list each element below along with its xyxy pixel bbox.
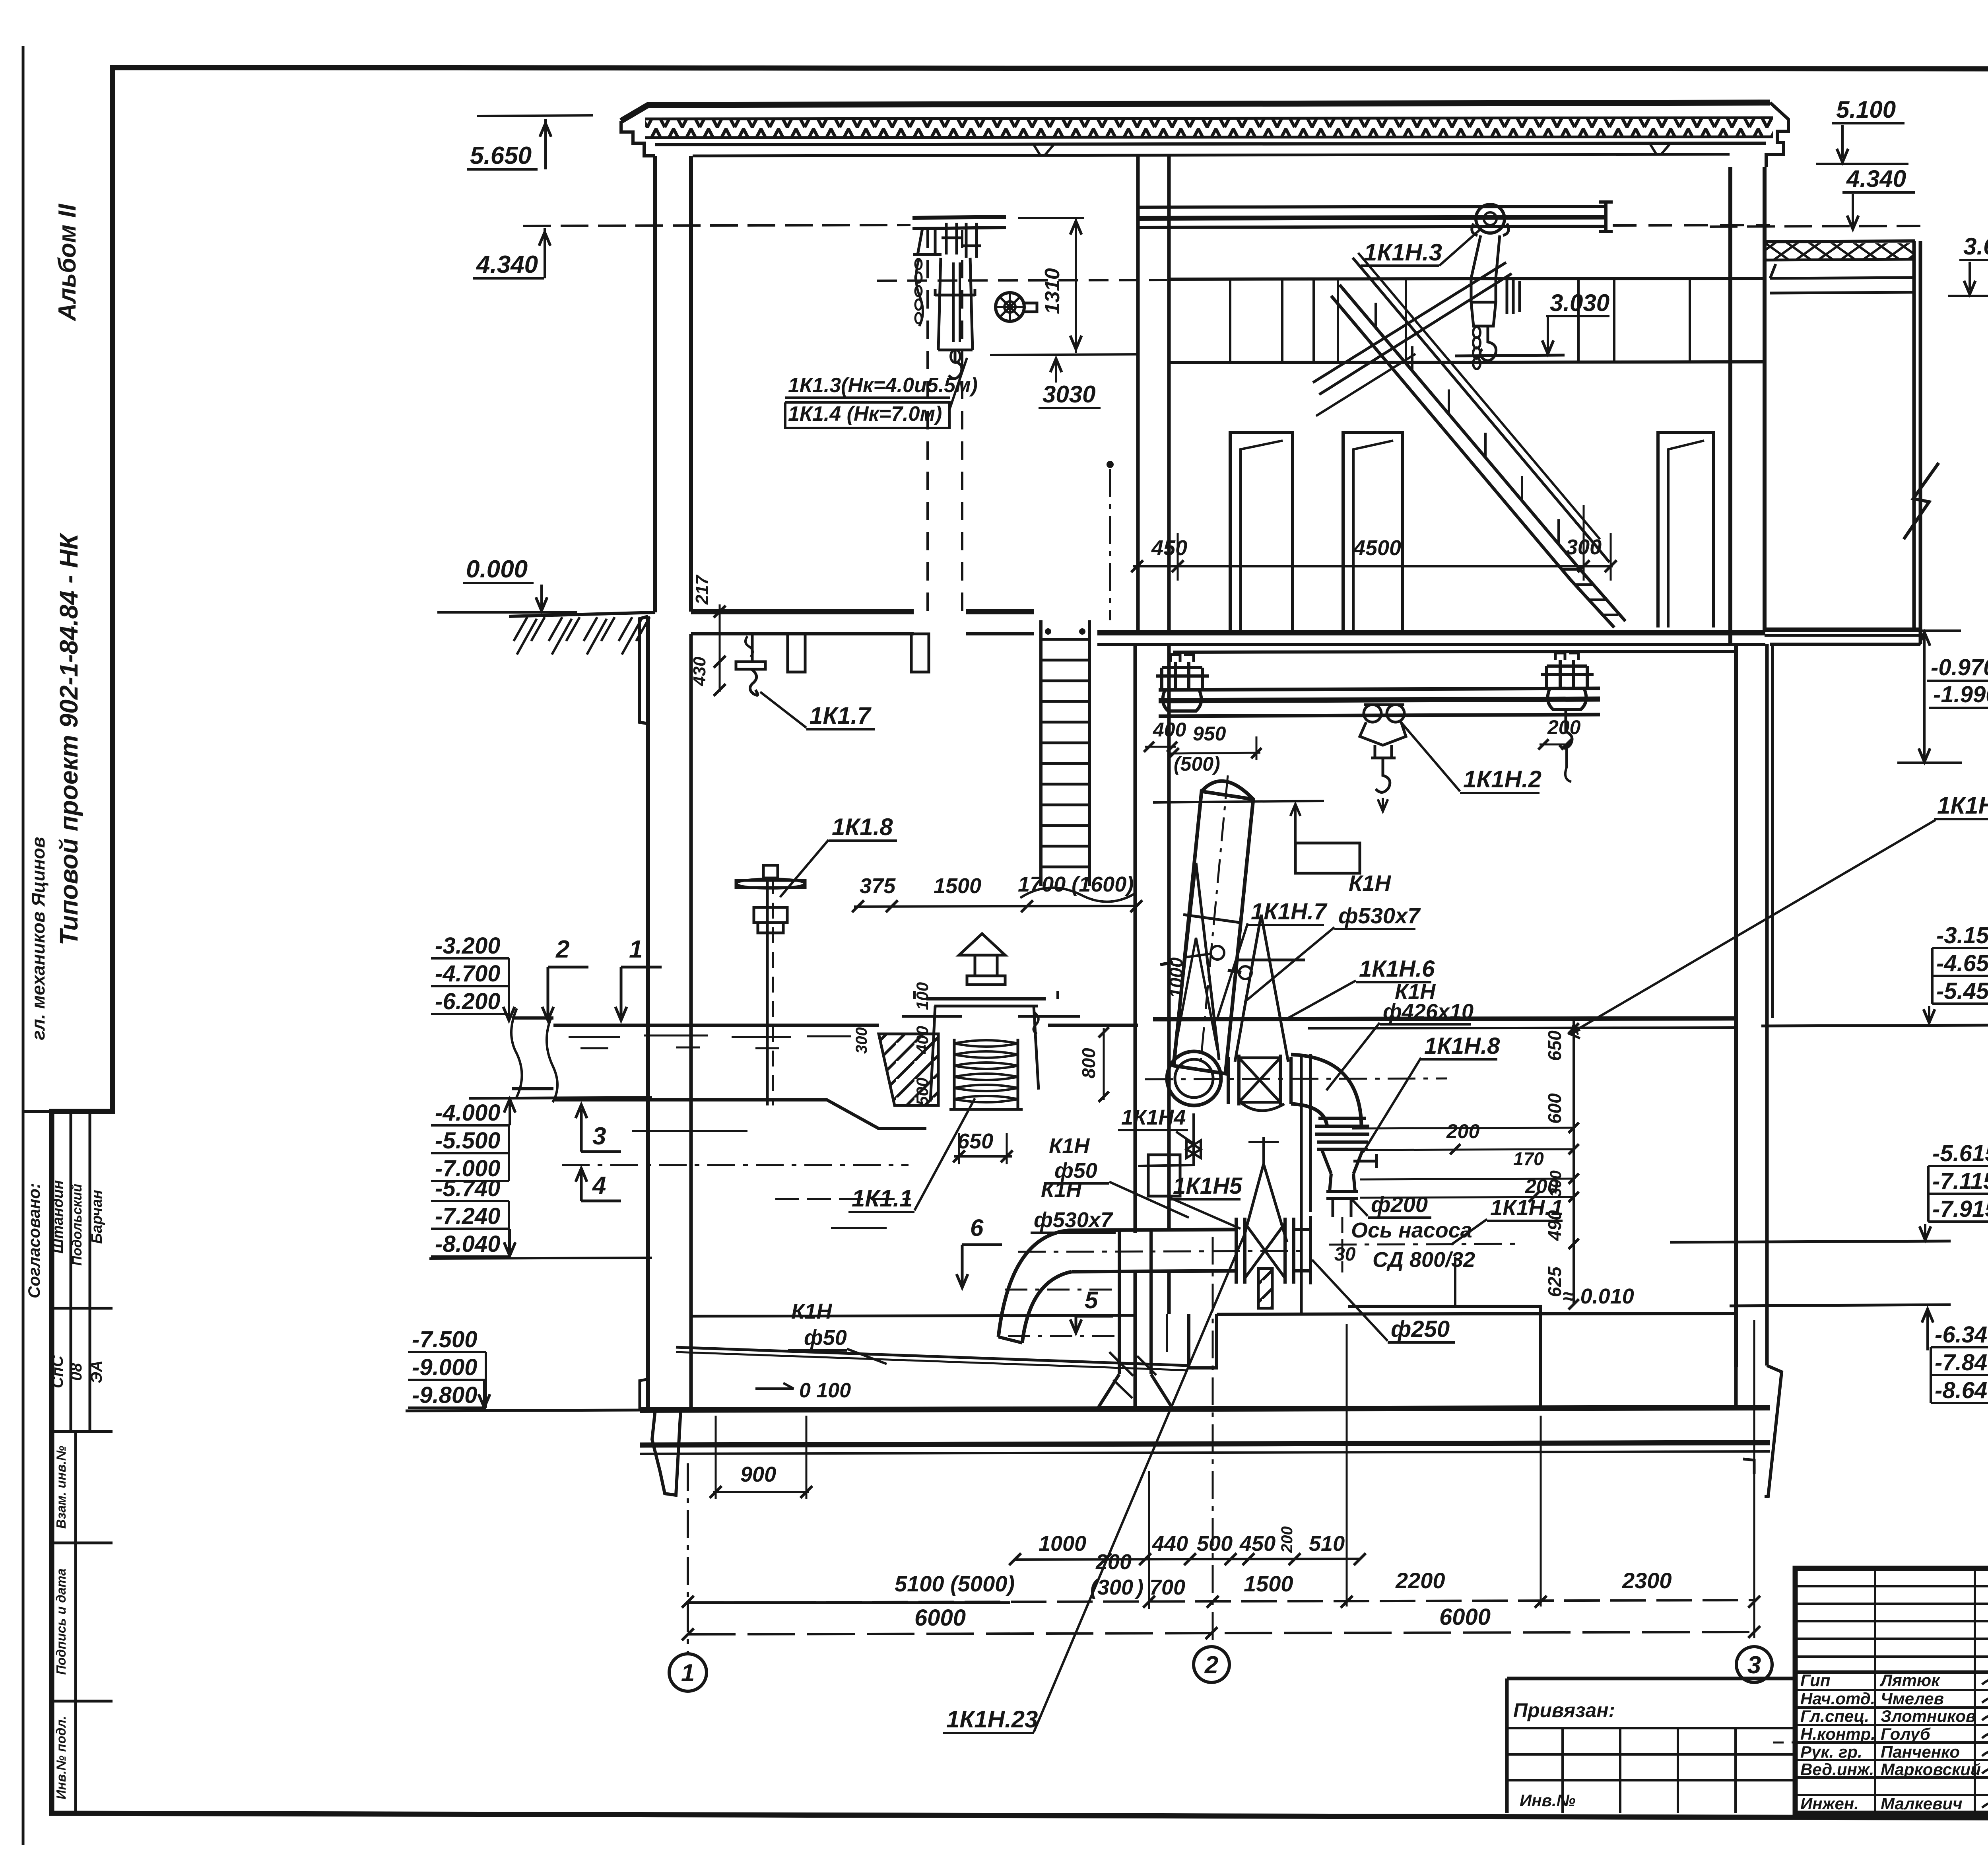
hoist 1K1.3 support beam [912,217,1006,218]
svg-text:300: 300 [1547,1170,1565,1197]
svg-text:3030: 3030 [1043,381,1095,408]
hoist 1K1.3 vertical cage [935,258,975,350]
channel water surface line [553,1024,879,1027]
water level dash-dot lines [562,1164,909,1166]
svg-text:1К1.7: 1К1.7 [810,702,872,729]
discharge elbow 426 [1291,1055,1361,1125]
level line -7.500 mat top ext [406,1410,640,1411]
sheet outer left edge line [22,46,25,1845]
left wall above ground [653,156,657,612]
suction pipe horizontal [1068,1230,1236,1230]
drain pipe K1H ф50 [676,1347,1188,1366]
svg-text:Барчан: Барчан [89,1190,105,1244]
svg-text:-7.240: -7.240 [435,1203,500,1229]
svg-text:1: 1 [629,936,643,963]
pit floor left sump [691,1315,1135,1316]
svg-text:-7.840: -7.840 [1935,1350,1988,1375]
svg-text:-7.115: -7.115 [1932,1168,1988,1194]
middle wall underground [1134,645,1137,1233]
right wall above ground [1728,167,1732,644]
svg-text:Инв.№: Инв.№ [1520,1791,1576,1810]
water hatch dashes [569,1036,620,1038]
svg-text:Штандин: Штандин [50,1180,66,1254]
svg-text:2300: 2300 [1622,1568,1672,1593]
binding box grid [1507,1727,1795,1729]
svg-text:Лятюк: Лятюк [1879,1671,1940,1690]
pump lifting A-frame 1 [1174,863,1219,1060]
svg-text:Подольский: Подольский [70,1184,85,1266]
riser pipe 1K1H.7 (530) body [1174,791,1253,1074]
svg-text:ф530х7: ф530х7 [1338,903,1421,928]
title block outer box [1795,1568,1988,1813]
svg-text:(300: (300 [1090,1575,1133,1599]
signature squiggles [1982,1676,1988,1688]
annex floor slab [1765,627,1920,632]
svg-text:1К1Н.23: 1К1Н.23 [946,1706,1038,1733]
left wall footing taper [652,1410,681,1495]
left basement wall [646,616,650,1410]
svg-text:6: 6 [970,1214,984,1241]
margin strip (Взам/Подпись/Инв) [74,1432,77,1813]
hook 1K1.7 crossbar [736,662,765,669]
door opening 1 ground floor [1230,433,1293,633]
svg-text:450: 450 [1151,536,1187,560]
svg-text:400: 400 [1153,719,1186,741]
hoist 1K1.3 hook [949,350,962,379]
svg-text:4.340: 4.340 [1846,165,1906,192]
svg-text:-6.340: -6.340 [1935,1322,1988,1348]
binding box Привязан [1507,1678,1795,1813]
ground floor slab right hall [1097,630,1765,635]
hoist block vanes [1507,278,1520,314]
crane beam end I-profile [1599,202,1613,231]
svg-text:440: 440 [1152,1532,1188,1556]
svg-text:217: 217 [692,574,712,605]
svg-text:Подпись и дата: Подпись и дата [54,1568,68,1675]
svg-text:Марковский: Марковский [1881,1760,1981,1779]
svg-text:СпС: СпС [49,1355,66,1388]
svg-text:1310: 1310 [1041,268,1064,314]
roof ceiling line [655,143,1766,145]
svg-text:Привязан:: Привязан: [1513,1699,1615,1721]
dim extension lines right of pump [1352,1128,1574,1129]
intake bell flare [1098,1374,1172,1408]
door opening 3 ground floor [1658,433,1714,627]
svg-text:500: 500 [1197,1532,1233,1556]
thin guide column [1300,1054,1303,1314]
svg-text:1К1.4 (Нк=7.0м): 1К1.4 (Нк=7.0м) [788,402,942,425]
crane level dash line right [1613,225,1770,225]
hoist 1K1H.3 body and chain [1471,235,1500,302]
channel floor and benching [553,1100,926,1129]
foundation mat top [640,1408,1770,1410]
dim extension verticals [1136,505,1138,581]
basement monorail beam 1K1H.2 [1159,688,1600,690]
floor line -4.000 level [469,1098,652,1098]
svg-text:К1Н: К1Н [791,1300,832,1323]
dim 1310 vertical [1075,217,1077,353]
svg-text:5100 (5000): 5100 (5000) [895,1571,1015,1596]
monorail right trolley [1547,660,1587,688]
left cornice steps [621,121,655,156]
pump axis lower dash-dot [1329,1244,1519,1245]
riser top level line [1153,801,1324,802]
svg-text:0 100: 0 100 [799,1379,851,1402]
right level line 4.340 dash [1710,226,1920,227]
second floor parapet band [1169,362,1766,363]
svg-text:1К1.1: 1К1.1 [852,1185,913,1212]
hoist 1K1.3 side chain loop [916,258,923,326]
extension verticals bottom [1148,1471,1150,1609]
slab rib 2 [911,634,929,672]
dashed perforation line [1773,1742,1988,1743]
coordination table (Согласовано) [50,1111,53,1432]
vertical dim chain x3958 [1573,1020,1575,1305]
staircase balusters [1375,303,1377,328]
basement ceiling line right part [1173,651,1736,652]
svg-text:450: 450 [1239,1532,1276,1556]
svg-text:5.100: 5.100 [1836,96,1896,123]
level dash line 5-6 upper [1005,1289,1118,1291]
svg-text:-5.615: -5.615 [1932,1140,1988,1166]
svg-text:-0.970: -0.970 [1931,655,1988,680]
hoist 1K1H.2 trolley wheels [1364,705,1381,722]
level dash line lower [1008,1335,1118,1337]
staircase flight B (far flight) [1313,262,1506,383]
name rows grid [1795,1689,1988,1691]
svg-text:3.030: 3.030 [1550,289,1609,316]
suction elbow K1H 530 bottom [998,1230,1068,1337]
svg-text:950: 950 [1193,723,1226,745]
float switch house 1K1.1 [959,934,1005,955]
roof truss hatched band [645,119,1773,138]
svg-text:1000: 1000 [1039,1532,1086,1556]
svg-text:6000: 6000 [1439,1604,1491,1630]
masonry hatched block [879,1034,938,1105]
svg-text:Вед.инж.: Вед.инж. [1800,1760,1874,1779]
hatch opening dashed drop lines [926,230,929,611]
svg-text:Гл.спец.: Гл.спец. [1800,1707,1869,1725]
svg-text:ф50: ф50 [804,1326,847,1350]
svg-text:Голуб: Голуб [1881,1725,1931,1743]
dim 217/430 hook [719,604,721,692]
break mark (wall) [1904,463,1939,539]
svg-text:100: 100 [913,982,932,1010]
rake clamp [754,907,787,923]
svg-text:Альбом II: Альбом II [54,203,81,322]
svg-text:625: 625 [1544,1266,1565,1297]
second floor slab dash level [877,280,1167,281]
machine room floor line [1217,1313,1736,1314]
riser pipe dome top [1202,781,1253,799]
svg-text:гл. механиков Яцинов: гл. механиков Яцинов [28,837,49,1040]
title block revision grid [1795,1585,1988,1587]
svg-text:Инжен.: Инжен. [1800,1794,1859,1813]
float rod with ring [1183,954,1212,958]
svg-text:-3.200: -3.200 [435,933,500,959]
suction cone above valve [1242,1164,1287,1242]
svg-text:ф530х7: ф530х7 [1034,1208,1114,1232]
title block line under project code [1795,1671,1988,1674]
hatched support pier [1258,1269,1272,1308]
ground floor slab left part [691,609,914,614]
svg-text:4: 4 [592,1172,606,1199]
hook ground line [1455,355,1565,356]
float house platform [926,997,1046,1000]
svg-text:3: 3 [1747,1651,1761,1679]
pump body bowtie [1228,1055,1291,1105]
roof rib V right [1650,144,1670,154]
grid axis 1 line [687,1463,689,1653]
grid axis 2 dash-dot upper [1109,469,1111,620]
svg-text:Гип: Гип [1800,1671,1831,1690]
roof rib V left [1034,145,1054,155]
inlet pipe left [512,1016,553,1020]
svg-text:1500: 1500 [1244,1571,1293,1596]
valve stem right [1353,1154,1376,1168]
ceiling hook 1K1.7 chain [751,635,754,662]
suction pipe centerline [1018,1251,1312,1252]
staircase flight A stringers [1340,285,1625,621]
svg-text:490: 490 [1544,1210,1565,1241]
right wall underground [1734,644,1738,1367]
pump body lower bowl [1241,1102,1284,1111]
foundation mat bottom [640,1443,1770,1445]
annex ceiling lines [1770,264,1913,278]
riser pipe centerline [1200,775,1228,1070]
svg-text:-9.000: -9.000 [412,1354,477,1380]
svg-text:200: 200 [1547,716,1581,738]
svg-text:3.600: 3.600 [1963,233,1988,260]
svg-text:500: 500 [913,1078,932,1105]
grid bubble 3 [1736,1647,1772,1682]
pump suction eye (circle) [1167,1051,1221,1105]
svg-text:Типовой проект 902-1-84.84: Типовой проект 902-1-84.84 - НК [54,532,83,945]
left wall footing step [639,616,648,724]
svg-text:Взам. инв.№: Взам. инв.№ [54,1445,68,1529]
right flange to foundation [1294,1216,1310,1284]
svg-text:650: 650 [957,1129,993,1153]
svg-text:К1Н: К1Н [1349,870,1392,896]
slab rib 1 [788,634,805,672]
middle wall above ground [1136,155,1140,633]
wall ladder [1039,620,1043,886]
svg-text:-3.155: -3.155 [1936,923,1988,948]
crane rail trolley 1K1H.3 wheel [1476,204,1505,233]
svg-text:1К1Н.3: 1К1Н.3 [1364,239,1442,266]
svg-text:800: 800 [1078,1048,1099,1078]
svg-text:5: 5 [1085,1287,1099,1313]
hoist 1K1.3 handwheel [996,293,1024,321]
svg-text:650: 650 [1544,1030,1565,1061]
svg-text:1: 1 [681,1659,695,1687]
mat bottom second line [640,1451,1770,1454]
hoist chain links [1473,327,1480,338]
level line -5.740 [429,1258,652,1259]
roof beam soffit line [693,154,1730,156]
svg-text:-9.800: -9.800 [412,1382,477,1408]
svg-text:ф426х10: ф426х10 [1383,1000,1474,1024]
discharge flange pair upper [1315,1118,1369,1134]
roof slab top chord [621,103,1770,121]
svg-text:Согласовано:: Согласовано: [25,1183,43,1298]
svg-text:200: 200 [1278,1526,1296,1553]
svg-text:1700 (1600): 1700 (1600) [1018,872,1134,896]
leader 1K1H.26 long [1570,820,1936,1034]
svg-text:-8.040: -8.040 [435,1231,500,1257]
svg-text:600: 600 [1544,1093,1565,1124]
annex roof hatched band [1765,243,1913,260]
svg-text:Ось насоса: Ось насоса [1351,1218,1472,1242]
ground line left with hatch [509,612,655,616]
svg-text:(500): (500) [1174,753,1220,775]
svg-text:СД 800/32: СД 800/32 [1373,1248,1475,1272]
svg-text:Панченко: Панченко [1881,1743,1960,1761]
svg-text:2: 2 [1204,1651,1218,1679]
middle wall hatch bottom [1109,1352,1156,1398]
right cornice steps [1766,103,1788,167]
second floor slab line [1169,278,1765,279]
bench level line right [1670,1241,1951,1242]
wall sleeve 1K1H4 and small pipe [1148,1155,1180,1196]
svg-text:1К1Н.26: 1К1Н.26 [1937,792,1988,819]
svg-text:-4.700: -4.700 [435,961,500,987]
svg-text:К1Н: К1Н [1041,1178,1082,1202]
foot valve bowtie [1245,1223,1285,1278]
svg-text:400: 400 [913,1026,932,1054]
svg-text:ф200: ф200 [1371,1192,1428,1217]
pump room floor line -4.000 [1153,1018,1736,1019]
screen basket 1K1.1 bellows [954,1040,1018,1047]
svg-text:4.340: 4.340 [476,251,538,278]
screen rake 1K1.8 [766,878,769,1105]
svg-text:200: 200 [1095,1550,1132,1574]
svg-text:-1.990: -1.990 [1933,682,1988,707]
foot valve 1K1H5 flanges [1236,1218,1294,1284]
svg-text:-6.200: -6.200 [435,989,500,1014]
svg-text:-4.655: -4.655 [1936,950,1988,976]
svg-text:4500: 4500 [1353,536,1401,560]
svg-text:5.650: 5.650 [470,142,532,169]
annex right wall [1912,241,1916,630]
staircase handrail A [1353,258,1609,562]
svg-text:1К1Н.6: 1К1Н.6 [1359,956,1435,982]
svg-text:Чмелев: Чмелев [1881,1689,1944,1708]
grid bubble 2 [1194,1647,1229,1682]
svg-text:1К1.3(Нк=4.0и5.5м): 1К1.3(Нк=4.0и5.5м) [788,374,978,397]
right trolley hook [1559,709,1572,748]
pump foundation pedestal [1348,1306,1541,1408]
riser trunnion [1160,962,1241,973]
hoist 1K1.3 trolley and frame [913,229,942,254]
svg-text:1К1Н5: 1К1Н5 [1173,1173,1242,1199]
svg-text:-5.455: -5.455 [1936,978,1988,1004]
A-frame crossbar [1236,959,1305,962]
monorail left trolley [1162,662,1202,690]
svg-text:-7.500: -7.500 [412,1327,477,1352]
pump axis dash-dot horizontal [1145,1078,1447,1079]
sump pit steps [1189,1314,1217,1368]
svg-text:Н.контр.: Н.контр. [1800,1725,1875,1743]
right wall footing taper [1765,1366,1782,1496]
svg-text:300: 300 [853,1027,870,1054]
svg-text:1К1Н4: 1К1Н4 [1121,1105,1186,1129]
svg-text:3: 3 [592,1123,606,1150]
svg-text:1К1.8: 1К1.8 [832,814,893,840]
ladder break squiggle [1020,888,1136,901]
svg-text:30: 30 [1334,1244,1356,1265]
channel left break [547,1018,557,1102]
svg-text:-4.000: -4.000 [435,1100,500,1126]
svg-text:Злотников: Злотников [1881,1707,1976,1725]
riser pipe weld seam [1183,915,1240,923]
ground floor slab middle piers [966,609,1034,614]
svg-text:1К1Н.2: 1К1Н.2 [1463,766,1541,793]
small hook above block [1033,1012,1038,1034]
svg-text:170: 170 [1513,1148,1544,1169]
check valve 1K1H.8 body [1317,1142,1368,1149]
svg-text:0.000: 0.000 [466,556,528,583]
svg-text:-7.915: -7.915 [1932,1196,1988,1222]
svg-text:-5.500: -5.500 [435,1128,500,1154]
upper crane beam (right hall) [1138,206,1604,207]
svg-text:-5.740: -5.740 [435,1175,500,1201]
svg-text:Инв.№ подл.: Инв.№ подл. [54,1716,68,1799]
svg-text:200: 200 [1446,1120,1480,1142]
emergency level line right [1761,1025,1988,1026]
svg-text:510: 510 [1309,1532,1345,1556]
svg-text:2: 2 [555,936,569,963]
svg-text:ЭА: ЭА [88,1360,105,1383]
slope mark 0 100 [755,1383,794,1389]
vertical intake pipe below floor [1118,1231,1121,1374]
svg-text:375: 375 [860,874,896,898]
hook 1K1.7 S-hook [750,669,757,695]
hoist 1K1H.2 hook [1376,758,1390,793]
svg-text:2200: 2200 [1395,1568,1445,1593]
svg-text:1К1Н.8: 1К1Н.8 [1424,1033,1500,1059]
grid bubble 1 [669,1654,707,1691]
svg-text:К1Н: К1Н [1049,1134,1090,1158]
reducer cone to 200 [1330,1174,1355,1191]
platform roof plate [902,1015,1080,1018]
stair steps lower [1563,569,1618,615]
door opening 2 ground floor [1343,433,1402,633]
svg-text:-8.640: -8.640 [1935,1377,1988,1403]
svg-text:1500: 1500 [934,874,981,898]
hoist hook 1K1H.3 [1480,326,1496,361]
pump lifting A-frame 2 [1235,915,1288,1062]
svg-text:900: 900 [740,1463,776,1486]
svg-text:Малкевич: Малкевич [1881,1794,1963,1813]
svg-text:08: 08 [68,1363,85,1381]
svg-text:Рук. гр.: Рук. гр. [1800,1743,1862,1761]
svg-text:≈ 0.010: ≈ 0.010 [1563,1284,1634,1308]
chamber floor line right [1730,1305,1951,1306]
svg-text:Нач.отд.: Нач.отд. [1800,1689,1875,1708]
svg-text:6000: 6000 [914,1605,966,1631]
svg-text:ф250: ф250 [1391,1316,1450,1342]
svg-text:) 700: ) 700 [1134,1575,1185,1599]
